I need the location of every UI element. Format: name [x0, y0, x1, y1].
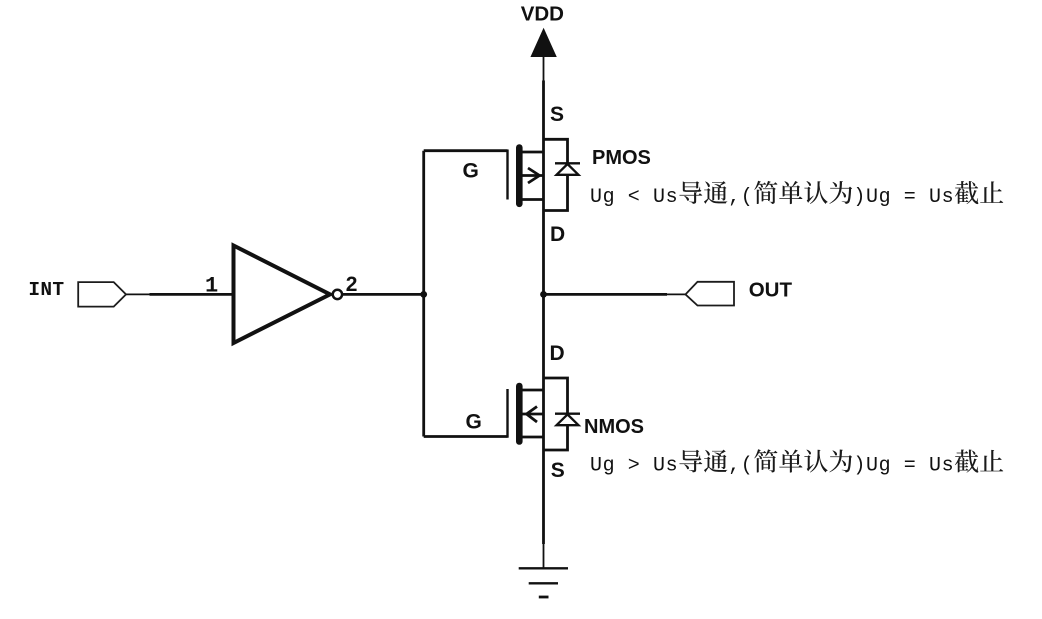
svg-text:1: 1: [205, 274, 218, 299]
note: PMOS conduction condition: [590, 181, 1003, 209]
transistor NMOS gate plate: [506, 389, 508, 438]
transistor NMOS channel bar: [516, 386, 523, 442]
junction node: drain / OUT: [540, 291, 547, 298]
wire: INT net to inverter input: [150, 293, 234, 296]
inverter output bubble: [333, 290, 342, 299]
wire: PMOS gate wire from bus: [424, 149, 508, 152]
transistor NMOS source stub: [520, 436, 544, 439]
svg-text:INT: INT: [28, 279, 64, 301]
svg-text:D: D: [550, 342, 565, 365]
transistor NMOS drain stub: [520, 389, 544, 392]
svg-text:S: S: [550, 103, 564, 126]
ground symbol: [519, 568, 568, 597]
transistor PMOS channel bar: [516, 148, 523, 204]
svg-text:Ug < Us: Ug < Us: [590, 186, 678, 209]
svg-text:S: S: [551, 459, 565, 482]
transistor PMOS source stub: [520, 151, 544, 154]
svg-text:2: 2: [346, 273, 358, 296]
transistor PMOS drain stub: [520, 198, 544, 201]
wire: inverter output to gate bus: [343, 293, 424, 296]
wire: NMOS gate wire from bus: [424, 435, 508, 438]
svg-text:G: G: [466, 411, 482, 434]
wire: drain node to OUT net: [544, 293, 668, 296]
svg-text:)Ug = Us: )Ug = Us: [853, 455, 954, 478]
svg-text:Ug > Us: Ug > Us: [590, 455, 678, 478]
op-amp style inverter U1 triangle: [234, 246, 331, 344]
port OUT (output): [686, 282, 735, 306]
junction node: inverter output / gate bus: [420, 291, 427, 298]
svg-text:D: D: [550, 223, 565, 246]
wire: ground pin lead: [543, 544, 545, 568]
wire: OUT port lead: [667, 293, 686, 295]
wire: PMOS body-diode loop: [544, 139, 568, 210]
wire: NMOS body-diode loop: [544, 378, 568, 450]
svg-text:OUT: OUT: [749, 279, 793, 302]
power rail VDD arrow symbol: [531, 29, 556, 57]
svg-text:NMOS: NMOS: [584, 416, 644, 438]
svg-text:G: G: [463, 159, 479, 182]
transistor PMOS gate plate: [506, 150, 508, 200]
note: NMOS conduction condition: [590, 449, 1003, 477]
diode: PMOS body diode: [555, 163, 580, 175]
svg-text:PMOS: PMOS: [592, 147, 651, 169]
diode: NMOS body diode: [555, 414, 580, 426]
wire: main vertical rail: [542, 81, 545, 545]
transistor PMOS bulk stub with arrow: [520, 168, 544, 183]
svg-text:)Ug = Us: )Ug = Us: [853, 186, 954, 209]
wire: VDD pin lead: [543, 57, 545, 81]
wire: INT port lead: [126, 293, 150, 295]
wire: gate bus vertical: [422, 151, 425, 437]
svg-text:,(: ,(: [728, 186, 753, 209]
transistor NMOS bulk stub with arrow: [520, 407, 544, 423]
port INT (input): [78, 282, 126, 307]
svg-text:,(: ,(: [728, 455, 753, 478]
svg-text:VDD: VDD: [521, 3, 564, 26]
